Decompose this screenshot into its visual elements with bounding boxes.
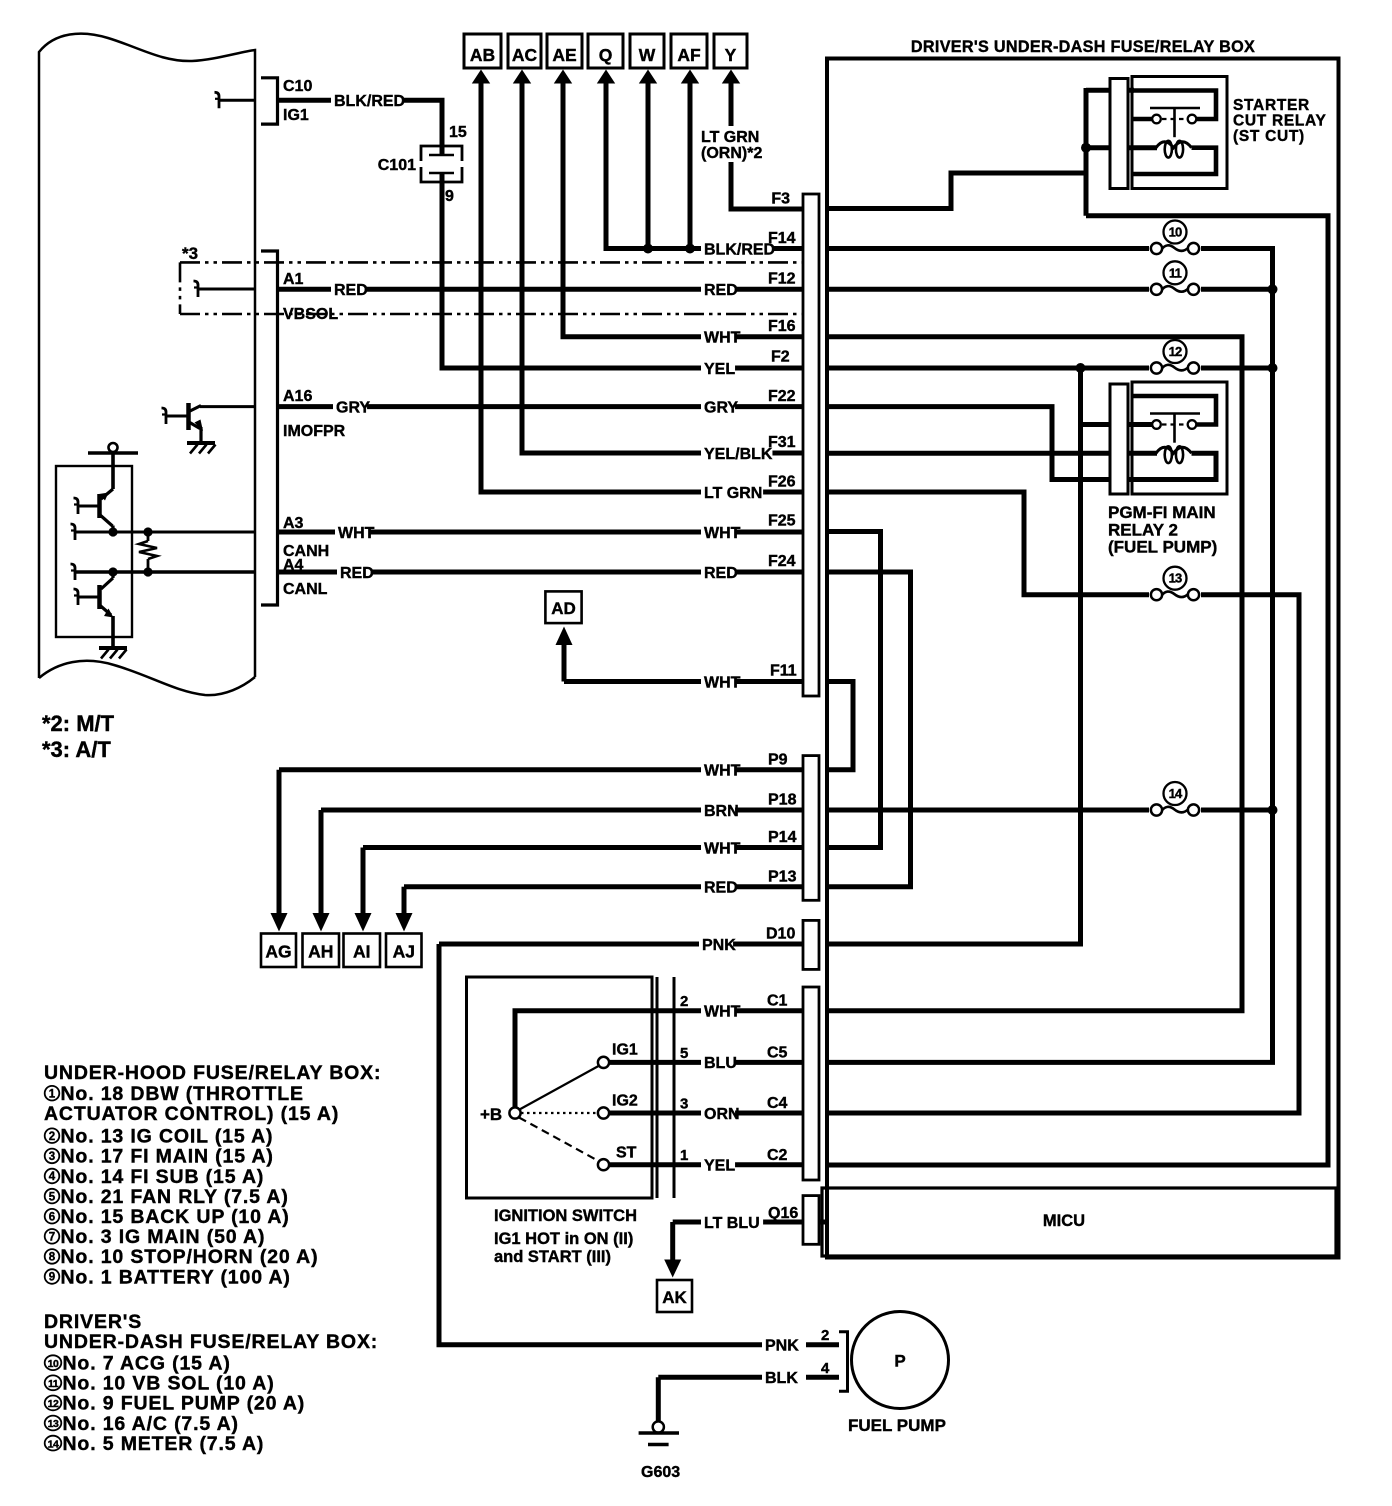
svg-text:BLK/RED: BLK/RED <box>334 93 405 110</box>
svg-text:3: 3 <box>49 1151 55 1163</box>
svg-text:F16: F16 <box>768 318 796 335</box>
svg-text:No. 3 IG MAIN (50 A): No. 3 IG MAIN (50 A) <box>61 1226 266 1248</box>
svg-text:2: 2 <box>49 1131 55 1143</box>
svg-text:CUT RELAY: CUT RELAY <box>1233 113 1327 130</box>
svg-text:F3: F3 <box>771 191 790 208</box>
svg-text:No. 13 IG COIL (15 A): No. 13 IG COIL (15 A) <box>61 1126 274 1148</box>
svg-text:5: 5 <box>680 1045 688 1062</box>
svg-text:PNK: PNK <box>702 937 736 954</box>
svg-text:No. 1 BATTERY (100 A): No. 1 BATTERY (100 A) <box>61 1266 291 1288</box>
svg-text:2: 2 <box>821 1327 829 1344</box>
svg-text:DRIVER'S UNDER-DASH FUSE/RELAY: DRIVER'S UNDER-DASH FUSE/RELAY BOX <box>911 38 1255 56</box>
svg-text:*2: M/T: *2: M/T <box>42 711 115 736</box>
svg-text:No. 16 A/C (7.5 A): No. 16 A/C (7.5 A) <box>63 1413 239 1435</box>
svg-text:2: 2 <box>680 993 688 1010</box>
svg-text:F14: F14 <box>768 230 796 247</box>
svg-text:F25: F25 <box>768 513 796 530</box>
svg-text:C1: C1 <box>767 993 788 1010</box>
svg-text:F12: F12 <box>768 271 796 288</box>
svg-text:WHT: WHT <box>704 525 741 542</box>
svg-text:BLU: BLU <box>704 1055 737 1072</box>
svg-text:12: 12 <box>1169 344 1182 359</box>
svg-text:RED: RED <box>340 565 374 582</box>
svg-text:Q16: Q16 <box>768 1205 798 1222</box>
svg-text:YEL: YEL <box>704 361 735 378</box>
svg-text:WHT: WHT <box>704 1004 741 1021</box>
svg-text:Y: Y <box>725 45 737 65</box>
svg-text:4: 4 <box>821 1360 830 1377</box>
svg-text:(ST CUT): (ST CUT) <box>1233 128 1305 145</box>
svg-text:No. 9 FUEL PUMP (20 A): No. 9 FUEL PUMP (20 A) <box>63 1393 306 1415</box>
svg-text:A3: A3 <box>283 515 304 532</box>
svg-text:BLK: BLK <box>765 1370 798 1387</box>
svg-text:IG2: IG2 <box>612 1093 638 1110</box>
svg-text:C101: C101 <box>378 157 416 174</box>
svg-text:C10: C10 <box>283 78 312 95</box>
svg-text:No. 14 FI SUB (15 A): No. 14 FI SUB (15 A) <box>61 1166 265 1188</box>
svg-text:AE: AE <box>552 45 576 65</box>
svg-text:No. 15 BACK UP (10 A): No. 15 BACK UP (10 A) <box>61 1206 290 1228</box>
svg-text:*3: A/T: *3: A/T <box>42 737 111 762</box>
svg-text:15: 15 <box>449 124 467 141</box>
svg-text:ST: ST <box>616 1145 637 1162</box>
svg-text:CANL: CANL <box>283 581 328 598</box>
svg-text:IG1: IG1 <box>283 107 309 124</box>
svg-text:10: 10 <box>1169 225 1182 240</box>
svg-text:and START (III): and START (III) <box>494 1248 611 1266</box>
svg-text:WHT: WHT <box>704 674 741 691</box>
svg-text:F26: F26 <box>768 474 796 491</box>
svg-text:13: 13 <box>1169 571 1182 586</box>
svg-text:UNDER-DASH FUSE/RELAY BOX:: UNDER-DASH FUSE/RELAY BOX: <box>44 1331 378 1353</box>
svg-text:11: 11 <box>48 1378 59 1390</box>
svg-text:YEL/BLK: YEL/BLK <box>704 446 773 463</box>
svg-text:LT BLU: LT BLU <box>704 1215 760 1232</box>
svg-text:C2: C2 <box>767 1147 788 1164</box>
svg-text:PNK: PNK <box>765 1338 799 1355</box>
svg-text:A4: A4 <box>283 557 304 574</box>
svg-text:7: 7 <box>49 1232 55 1244</box>
svg-text:YEL: YEL <box>704 1158 735 1175</box>
svg-text:F31: F31 <box>768 434 796 451</box>
svg-text:ACTUATOR CONTROL) (15 A): ACTUATOR CONTROL) (15 A) <box>44 1103 339 1125</box>
svg-text:ORN: ORN <box>704 1106 740 1123</box>
svg-text:RED: RED <box>334 282 368 299</box>
svg-text:AG: AG <box>265 942 291 962</box>
svg-text:4: 4 <box>49 1171 56 1183</box>
svg-text:3: 3 <box>680 1096 688 1113</box>
svg-text:AJ: AJ <box>393 942 415 962</box>
svg-text:A16: A16 <box>283 388 312 405</box>
svg-text:LT GRN: LT GRN <box>701 129 759 146</box>
svg-text:(FUEL PUMP): (FUEL PUMP) <box>1108 538 1217 557</box>
svg-text:FUEL PUMP: FUEL PUMP <box>848 1416 946 1435</box>
svg-text:*3: *3 <box>182 244 198 263</box>
svg-text:C5: C5 <box>767 1045 788 1062</box>
svg-text:D10: D10 <box>766 926 795 943</box>
svg-text:+B: +B <box>480 1105 502 1124</box>
svg-text:P13: P13 <box>768 869 797 886</box>
svg-text:P: P <box>894 1352 905 1371</box>
svg-text:12: 12 <box>48 1398 59 1410</box>
svg-text:UNDER-HOOD FUSE/RELAY BOX:: UNDER-HOOD FUSE/RELAY BOX: <box>44 1062 381 1084</box>
svg-text:9: 9 <box>49 1272 55 1284</box>
svg-text:IGNITION SWITCH: IGNITION SWITCH <box>494 1207 637 1225</box>
svg-text:5: 5 <box>49 1191 56 1203</box>
svg-text:RED: RED <box>704 880 738 897</box>
svg-text:C4: C4 <box>767 1095 788 1112</box>
svg-text:IMOFPR: IMOFPR <box>283 423 346 440</box>
svg-text:F2: F2 <box>771 349 790 366</box>
svg-text:IG1 HOT in ON (II): IG1 HOT in ON (II) <box>494 1230 633 1248</box>
svg-text:P14: P14 <box>768 829 797 846</box>
svg-text:AF: AF <box>677 45 701 65</box>
svg-text:P9: P9 <box>768 752 788 769</box>
svg-text:DRIVER'S: DRIVER'S <box>44 1311 142 1333</box>
svg-text:14: 14 <box>48 1438 59 1450</box>
svg-text:AB: AB <box>470 45 495 65</box>
svg-text:IG1: IG1 <box>612 1042 638 1059</box>
svg-text:G603: G603 <box>641 1464 680 1481</box>
svg-text:RED: RED <box>704 565 738 582</box>
svg-text:STARTER: STARTER <box>1233 97 1310 114</box>
svg-text:W: W <box>639 45 656 65</box>
svg-text:MICU: MICU <box>1043 1212 1085 1230</box>
svg-text:No. 17 FI MAIN (15 A): No. 17 FI MAIN (15 A) <box>61 1146 274 1168</box>
svg-text:No. 21 FAN RLY (7.5 A): No. 21 FAN RLY (7.5 A) <box>61 1186 289 1208</box>
svg-text:1: 1 <box>680 1147 688 1164</box>
svg-text:F22: F22 <box>768 388 796 405</box>
svg-text:13: 13 <box>48 1418 59 1430</box>
svg-text:WHT: WHT <box>704 763 741 780</box>
svg-text:GRY: GRY <box>336 399 370 416</box>
svg-text:1: 1 <box>49 1088 56 1100</box>
svg-text:Q: Q <box>599 45 613 65</box>
svg-text:VBSOL: VBSOL <box>283 306 338 323</box>
svg-text:AK: AK <box>662 1288 687 1307</box>
svg-text:No. 10 VB SOL (10 A): No. 10 VB SOL (10 A) <box>63 1373 275 1395</box>
svg-text:WHT: WHT <box>704 330 741 347</box>
svg-text:LT GRN: LT GRN <box>704 485 762 502</box>
svg-text:AI: AI <box>353 942 371 962</box>
svg-text:AH: AH <box>308 942 333 962</box>
svg-text:PGM-FI MAIN: PGM-FI MAIN <box>1108 503 1216 522</box>
svg-text:RED: RED <box>704 282 738 299</box>
svg-text:BLK/RED: BLK/RED <box>704 241 775 258</box>
svg-text:No. 7 ACG (15 A): No. 7 ACG (15 A) <box>63 1353 231 1375</box>
svg-text:P18: P18 <box>768 792 797 809</box>
svg-text:AC: AC <box>512 45 538 65</box>
svg-text:9: 9 <box>445 188 454 205</box>
svg-text:11: 11 <box>1169 265 1182 280</box>
svg-text:No. 18 DBW (THROTTLE: No. 18 DBW (THROTTLE <box>61 1083 304 1105</box>
svg-text:WHT: WHT <box>338 525 375 542</box>
svg-text:(ORN)*2: (ORN)*2 <box>701 145 762 162</box>
svg-text:WHT: WHT <box>704 840 741 857</box>
svg-text:F11: F11 <box>770 663 797 680</box>
svg-text:AD: AD <box>551 599 576 618</box>
svg-text:No. 5 METER (7.5 A): No. 5 METER (7.5 A) <box>63 1433 265 1455</box>
svg-text:A1: A1 <box>283 271 304 288</box>
svg-text:8: 8 <box>49 1252 56 1264</box>
svg-text:10: 10 <box>48 1358 59 1370</box>
svg-text:BRN: BRN <box>704 803 739 820</box>
svg-text:6: 6 <box>49 1211 55 1223</box>
svg-text:GRY: GRY <box>704 399 738 416</box>
svg-text:No. 10 STOP/HORN (20 A): No. 10 STOP/HORN (20 A) <box>61 1246 319 1268</box>
svg-text:14: 14 <box>1169 786 1183 801</box>
svg-text:F24: F24 <box>768 553 796 570</box>
